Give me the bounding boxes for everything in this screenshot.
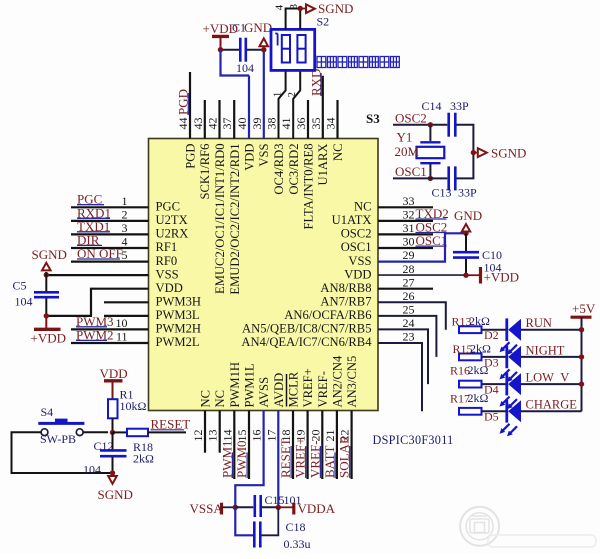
U1 top pin 43 (SCK1/RF6) wire bbox=[204, 100, 206, 139]
power +VDD (C5) bbox=[45, 316, 47, 329]
node: OSC2/Y1 junction bbox=[428, 122, 433, 127]
svg-text:VDDA: VDDA bbox=[298, 501, 336, 516]
U1 top pin 35 (U1ARX) wire bbox=[322, 76, 324, 139]
svg-text:VDD: VDD bbox=[243, 144, 257, 171]
ground GND (C1) bbox=[260, 38, 269, 46]
svg-text:SGND: SGND bbox=[98, 487, 133, 502]
resistor R15 bbox=[459, 356, 482, 358]
svg-text:+VDD: +VDD bbox=[31, 331, 67, 346]
svg-text:PGD: PGD bbox=[184, 144, 198, 169]
U1 top pin 36 (FLTA/INT0/RE8) wire bbox=[307, 100, 309, 139]
wire R15 to LED bbox=[482, 356, 507, 358]
svg-text:U1ARX: U1ARX bbox=[316, 144, 330, 186]
svg-text:15: 15 bbox=[235, 430, 249, 442]
svg-text:RF0: RF0 bbox=[156, 254, 178, 268]
svg-text:PWM3H: PWM3H bbox=[156, 295, 201, 309]
node: +5V rail junction bbox=[579, 381, 584, 386]
svg-text:23: 23 bbox=[403, 330, 415, 344]
svg-text:DSPIC30F3011: DSPIC30F3011 bbox=[373, 433, 454, 447]
svg-text:SW-PB: SW-PB bbox=[40, 432, 76, 446]
node: +5V rail junction bbox=[579, 354, 584, 359]
svg-text:AVSS: AVSS bbox=[257, 377, 271, 408]
capacitor C14 bbox=[447, 113, 450, 137]
svg-text:11: 11 bbox=[116, 330, 128, 344]
U1 top pin 40 (VDD) wire bbox=[248, 76, 250, 139]
LED D4 bbox=[505, 373, 508, 396]
svg-text:43: 43 bbox=[191, 118, 205, 130]
svg-text:37: 37 bbox=[220, 118, 234, 130]
svg-text:C13: C13 bbox=[432, 186, 452, 200]
svg-text:AN4/QEA/IC7/CN6/RB4: AN4/QEA/IC7/CN6/RB4 bbox=[241, 335, 372, 349]
node: S2/SGND junction bbox=[298, 6, 303, 11]
LED D5 emission arrows bbox=[501, 424, 510, 433]
capacitor C10 bbox=[453, 251, 479, 254]
U1 top pin 44 (PGD) wire bbox=[189, 72, 191, 139]
crystal Y1 bbox=[420, 141, 440, 143]
power VDDA bbox=[278, 506, 292, 508]
svg-text:10: 10 bbox=[116, 316, 128, 330]
svg-text:C14: C14 bbox=[422, 99, 442, 113]
U1 right pin 31 (OSC2) wire bbox=[378, 233, 433, 235]
svg-text:2kΩ: 2kΩ bbox=[470, 341, 491, 355]
svg-text:VSSA: VSSA bbox=[190, 501, 224, 516]
U1 right pin 27 (AN8/RB8) wire bbox=[378, 288, 433, 290]
svg-text:VDD: VDD bbox=[100, 366, 128, 381]
svg-text:GND: GND bbox=[454, 208, 482, 223]
svg-text:VREF+: VREF+ bbox=[301, 368, 315, 407]
wire S4 left loop to SGND bbox=[12, 432, 113, 473]
U1 top pin 37 (EMUD2/OC2/IC2/INT2/RD1) wire bbox=[233, 100, 235, 139]
svg-text:1: 1 bbox=[271, 92, 283, 98]
svg-text:PWM2L: PWM2L bbox=[156, 335, 200, 349]
capacitor C5 bbox=[34, 291, 59, 294]
svg-text:LOW V: LOW V bbox=[526, 371, 570, 385]
U1 left pin 1 (PGC) wire bbox=[71, 206, 149, 208]
svg-text:16: 16 bbox=[250, 430, 264, 442]
svg-text:0.33u: 0.33u bbox=[284, 537, 311, 551]
capacitor C1 bbox=[239, 38, 242, 62]
S2 switch element 1 bbox=[282, 35, 290, 63]
switch S2 (DIP) body bbox=[271, 29, 315, 70]
svg-text:40: 40 bbox=[235, 118, 249, 130]
ground SGND (S2) bbox=[306, 4, 315, 13]
svg-text:PWM2H: PWM2H bbox=[156, 322, 201, 336]
wire Y1 top bbox=[429, 125, 431, 141]
svg-text:41: 41 bbox=[279, 118, 293, 130]
svg-text:35: 35 bbox=[309, 118, 323, 130]
LED D5 bbox=[505, 400, 508, 423]
node: crystal SGND junction bbox=[471, 150, 476, 155]
power +VDD (C10) bbox=[479, 267, 482, 284]
svg-text:EMUC2/OC1/IC1/INT1/RD0: EMUC2/OC1/IC1/INT1/RD0 bbox=[213, 144, 227, 294]
node: C10/+VDD junction bbox=[463, 273, 468, 278]
wire C15 right bbox=[262, 506, 278, 508]
svg-text:SCK1/RF6: SCK1/RF6 bbox=[198, 144, 212, 200]
node: +5V rail junction bbox=[579, 327, 584, 332]
svg-text:25: 25 bbox=[403, 303, 415, 317]
U1 right pin 23 (AN4/QEA/IC7/CN6/RB4) wire bbox=[378, 343, 422, 411]
node: C1/+VDD junction bbox=[218, 47, 223, 52]
svg-text:33: 33 bbox=[403, 194, 415, 208]
svg-text:27: 27 bbox=[403, 275, 415, 289]
svg-text:5: 5 bbox=[122, 248, 128, 262]
svg-text:U2RX: U2RX bbox=[156, 227, 189, 241]
U1 left pin 6 (VSS) wire bbox=[46, 274, 148, 276]
node: C5/+VDD junction bbox=[44, 313, 49, 318]
wire to +VDD bar bbox=[466, 274, 479, 276]
node: VSSA junction bbox=[233, 505, 238, 510]
watermark logo bbox=[460, 507, 499, 546]
capacitor C15 bbox=[235, 506, 253, 508]
resistor R16 bbox=[459, 383, 482, 385]
svg-text:2: 2 bbox=[286, 92, 298, 98]
wire R13 to LED bbox=[482, 329, 507, 331]
wire +VDD to pin40 bbox=[221, 50, 250, 76]
svg-text:2kΩ: 2kΩ bbox=[133, 451, 154, 465]
U1 left pin 7 (VDD) wire bbox=[46, 289, 148, 316]
svg-text:+5V: +5V bbox=[572, 301, 596, 316]
wire C10 top bbox=[465, 233, 467, 251]
svg-text:OC4/RD3: OC4/RD3 bbox=[272, 144, 286, 195]
svg-text:38: 38 bbox=[265, 118, 279, 130]
capacitor C13 bbox=[447, 166, 450, 190]
svg-text:30: 30 bbox=[403, 235, 415, 249]
svg-text:39: 39 bbox=[250, 118, 264, 130]
svg-text:AN7/RB7: AN7/RB7 bbox=[320, 295, 371, 309]
svg-text:20M: 20M bbox=[395, 144, 420, 159]
svg-text:C18: C18 bbox=[286, 520, 306, 534]
wire LED D3 anode to +5V rail bbox=[521, 356, 582, 358]
svg-text:OSC1: OSC1 bbox=[395, 164, 427, 179]
svg-text:AN3/CN5: AN3/CN5 bbox=[345, 356, 359, 408]
U1 right pin 33 (NC) wire bbox=[378, 206, 433, 208]
U1 top pin 38 (OC4/RD3) wire bbox=[279, 70, 286, 138]
svg-text:104: 104 bbox=[83, 462, 101, 476]
svg-text:FLTA/INT0/RE8: FLTA/INT0/RE8 bbox=[302, 144, 316, 230]
LED D3 emission arrows bbox=[501, 369, 510, 378]
svg-text:C5: C5 bbox=[13, 278, 27, 292]
svg-text:42: 42 bbox=[206, 118, 220, 130]
U1 top pin 41 (OC3/RD2) wire bbox=[293, 70, 300, 138]
wire RESET bbox=[148, 431, 186, 433]
svg-text:AN5/QEB/IC8/CN7/RB5: AN5/QEB/IC8/CN7/RB5 bbox=[242, 322, 371, 336]
svg-text:26: 26 bbox=[403, 289, 415, 303]
svg-text:NC: NC bbox=[331, 144, 345, 162]
svg-text:AN6/OCFA/RB6: AN6/OCFA/RB6 bbox=[284, 308, 371, 322]
svg-text:29: 29 bbox=[403, 248, 415, 262]
annotation 四种控制方式选择 (drawn glyphs) bbox=[317, 57, 399, 68]
wire C10 bottom bbox=[465, 259, 467, 275]
LED D3 bbox=[505, 346, 508, 369]
U1 bottom pin 14 (PWM1H) wire bbox=[233, 411, 235, 480]
wire OSC1 bbox=[393, 177, 447, 179]
svg-text:OSC2: OSC2 bbox=[395, 111, 427, 126]
LED D4 emission arrows bbox=[501, 397, 510, 406]
wire OSC2 bbox=[393, 124, 447, 126]
U1 right pin 24 (AN5/QEB/IC8/CN7/RB5) wire bbox=[378, 329, 428, 384]
svg-text:24: 24 bbox=[403, 316, 415, 330]
ground SGND (C12), arrow down bbox=[108, 476, 117, 484]
svg-text:S2: S2 bbox=[317, 15, 330, 29]
wire to SGND bbox=[473, 152, 477, 154]
svg-text:OC3/RD2: OC3/RD2 bbox=[287, 144, 301, 195]
svg-text:GND: GND bbox=[244, 20, 272, 35]
svg-text:RF1: RF1 bbox=[156, 240, 178, 254]
U1 right pin 29 (VSS) wire bbox=[378, 233, 466, 261]
U1 bottom pin 15 (PWM1L) wire bbox=[248, 411, 250, 480]
svg-text:VREF-: VREF- bbox=[316, 371, 330, 407]
svg-text:NC: NC bbox=[213, 390, 227, 408]
svg-text:NC: NC bbox=[354, 200, 372, 214]
svg-text:SGND: SGND bbox=[491, 146, 526, 161]
svg-text:VSS: VSS bbox=[156, 267, 179, 281]
wire C5 top bbox=[45, 272, 47, 291]
U1 bottom pin 20 (VREF-) wire bbox=[321, 411, 323, 480]
svg-text:34: 34 bbox=[324, 118, 338, 130]
U1 top pin 34 (NC) wire bbox=[336, 100, 338, 139]
wire Y1 bottom bbox=[429, 163, 431, 178]
wire C14 right bbox=[457, 125, 474, 153]
wire LED D5 anode to +5V rail bbox=[521, 410, 582, 412]
wire R16 to LED bbox=[482, 383, 507, 385]
node: SGND/C5 junction bbox=[44, 272, 49, 277]
LED D2 bbox=[505, 318, 508, 341]
U1 top pin 42 (EMUC2/OC1/IC1/INT1/RD0) wire bbox=[218, 100, 220, 139]
resistor R17 bbox=[459, 410, 482, 412]
U1 bottom pin 17 (AVDD) wire bbox=[277, 411, 279, 508]
U1 bottom pin 18 (MCLR) wire bbox=[292, 411, 294, 480]
U1 left pin 2 (U2TX) wire bbox=[71, 220, 149, 222]
svg-text:32: 32 bbox=[403, 208, 415, 222]
node: OSC1/Y1 junction bbox=[428, 176, 433, 181]
wire +5V rail bbox=[581, 330, 583, 412]
U1 left pin 11 (PWM2L) wire bbox=[71, 342, 149, 344]
U1 top pin 39 (VSS) wire bbox=[263, 50, 265, 139]
svg-text:OSC1: OSC1 bbox=[341, 240, 372, 254]
U1 bottom pin 12 (NC) wire bbox=[204, 411, 206, 453]
svg-text:CHARGE: CHARGE bbox=[526, 398, 578, 412]
wire LED D2 anode to +5V rail bbox=[521, 329, 582, 331]
svg-text:33P: 33P bbox=[450, 99, 469, 113]
svg-text:D5: D5 bbox=[484, 410, 499, 424]
U1 left pin 10 (PWM2H) wire bbox=[71, 328, 149, 330]
U1 right pin 25 (AN6/OCFA/RB6) wire bbox=[378, 316, 436, 357]
svg-text:12: 12 bbox=[191, 430, 205, 442]
svg-text:14: 14 bbox=[220, 430, 234, 442]
svg-text:S3: S3 bbox=[366, 111, 380, 126]
svg-text:3: 3 bbox=[122, 221, 128, 235]
svg-text:2kΩ: 2kΩ bbox=[468, 391, 489, 405]
U1 bottom pin 16 (AVSS) wire bbox=[235, 411, 263, 508]
svg-text:10kΩ: 10kΩ bbox=[120, 399, 147, 413]
svg-text:AN8/RB8: AN8/RB8 bbox=[320, 281, 371, 295]
wire C13 right bbox=[457, 153, 474, 179]
svg-text:VDD: VDD bbox=[344, 267, 371, 281]
svg-text:PWM3L: PWM3L bbox=[156, 308, 200, 322]
S2 marker bbox=[277, 34, 279, 46]
svg-text:AVDD: AVDD bbox=[272, 373, 286, 408]
U1 right pin 28 (VDD) wire bbox=[378, 274, 466, 276]
ground SGND (crystal) bbox=[478, 148, 487, 157]
U1 left pin 5 (RF0) wire bbox=[71, 261, 149, 263]
svg-text:104: 104 bbox=[15, 295, 33, 309]
svg-text:28: 28 bbox=[403, 262, 415, 276]
svg-text:VDD: VDD bbox=[156, 281, 183, 295]
wire to SGND arrow bbox=[300, 8, 306, 10]
svg-text:NIGHT: NIGHT bbox=[526, 343, 565, 357]
resistor R13 bbox=[459, 329, 482, 331]
svg-text:D2: D2 bbox=[484, 328, 499, 342]
svg-text:U1ATX: U1ATX bbox=[332, 213, 372, 227]
svg-text:C15: C15 bbox=[265, 493, 285, 507]
svg-text:21: 21 bbox=[323, 430, 337, 442]
svg-text:U2TX: U2TX bbox=[156, 213, 188, 227]
svg-text:13: 13 bbox=[206, 430, 220, 442]
svg-text:PGC: PGC bbox=[156, 200, 181, 214]
wire C12 bottom bbox=[112, 457, 114, 475]
resistor R1 bbox=[108, 399, 118, 418]
svg-text:17: 17 bbox=[264, 430, 278, 442]
U1 bottom pin 21 (AN2/CN4) wire bbox=[336, 411, 338, 480]
S2 top wires to SGND bbox=[286, 9, 301, 30]
svg-text:RUN: RUN bbox=[526, 316, 552, 330]
MCLR overline bbox=[286, 374, 288, 407]
svg-text:2kΩ: 2kΩ bbox=[468, 363, 489, 377]
svg-text:VSS: VSS bbox=[257, 144, 271, 167]
svg-text:36: 36 bbox=[294, 118, 308, 130]
svg-text:+VDD: +VDD bbox=[484, 269, 520, 284]
U1 bottom pin 13 (NC) wire bbox=[219, 411, 221, 453]
svg-text:S4: S4 bbox=[41, 405, 54, 419]
svg-text:PWM1H: PWM1H bbox=[228, 362, 242, 407]
node: C1/GND junction bbox=[261, 47, 266, 52]
U1 right pin 30 (OSC1) wire bbox=[378, 247, 433, 249]
wire C5 bottom bbox=[45, 298, 47, 316]
capacitor C18 bbox=[235, 507, 253, 535]
wire R1 bottom bbox=[112, 418, 114, 432]
power +VDD (C1) bbox=[212, 35, 229, 38]
U1 left pin 9 (PWM3L) wire bbox=[104, 315, 149, 317]
svg-text:2: 2 bbox=[122, 208, 128, 222]
U1 left pin 3 (U2RX) wire bbox=[71, 233, 149, 235]
resistor R18 bbox=[113, 431, 128, 433]
U1 bottom pin 22 (AN3/CN5) wire bbox=[351, 411, 353, 480]
svg-text:AN2/CN4: AN2/CN4 bbox=[330, 355, 344, 407]
svg-text:SGND: SGND bbox=[32, 247, 67, 262]
svg-text:EMUD2/OC2/IC2/INT2/RD1: EMUD2/OC2/IC2/INT2/RD1 bbox=[228, 143, 242, 294]
op-chip U1 DSPIC30F3011 body bbox=[149, 139, 379, 411]
svg-text:NC: NC bbox=[199, 390, 213, 408]
svg-text:OSC2: OSC2 bbox=[341, 227, 372, 241]
svg-text:PWM1L: PWM1L bbox=[243, 363, 257, 407]
wire C1 left bbox=[221, 49, 240, 51]
wire S4 to junction bbox=[83, 431, 108, 433]
U1 right pin 32 (U1ATX) wire bbox=[378, 220, 433, 222]
S2 switch element 2 bbox=[297, 35, 305, 63]
U1 left pin 8 (PWM3H) wire bbox=[104, 301, 149, 303]
node: S4 loop / SGND junction bbox=[110, 470, 115, 475]
node: GND/C10 junction bbox=[463, 231, 468, 236]
svg-text:44: 44 bbox=[176, 118, 190, 130]
svg-text:Y1: Y1 bbox=[397, 130, 413, 145]
svg-text:20: 20 bbox=[308, 430, 322, 442]
svg-text:VSS: VSS bbox=[348, 254, 371, 268]
wire LED D4 anode to +5V rail bbox=[521, 383, 582, 385]
U1 right pin 26 (AN7/RB7) wire bbox=[378, 302, 446, 329]
svg-text:33P: 33P bbox=[458, 186, 477, 200]
svg-text:104: 104 bbox=[236, 61, 254, 75]
svg-text:2kΩ: 2kΩ bbox=[469, 314, 490, 328]
wire C1 right to GND bbox=[247, 49, 264, 51]
svg-text:31: 31 bbox=[403, 221, 415, 235]
U1 left pin 4 (RF1) wire bbox=[71, 247, 149, 249]
U1 bottom pin 19 (VREF+) wire bbox=[307, 411, 309, 480]
svg-text:MCLR: MCLR bbox=[287, 371, 301, 407]
svg-text:4: 4 bbox=[273, 4, 285, 10]
node: VDDA junction bbox=[276, 505, 281, 510]
wire R17 to LED bbox=[482, 410, 507, 412]
LED D2 emission arrows bbox=[501, 342, 510, 351]
svg-text:1: 1 bbox=[122, 194, 128, 208]
node: reset junction bbox=[110, 430, 115, 435]
